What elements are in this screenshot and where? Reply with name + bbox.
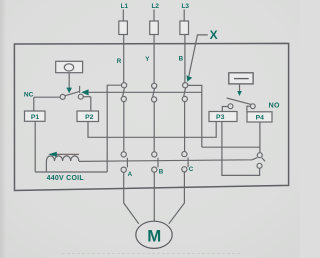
NO start contact bbox=[227, 98, 256, 109]
hold contact bbox=[257, 153, 265, 169]
wire P3 stub bbox=[222, 107, 228, 112]
svg-text:P3: P3 bbox=[216, 114, 225, 121]
wire X contact to hold node bbox=[188, 85, 202, 147]
wire motor lead A bbox=[124, 172, 139, 224]
wire R mid bbox=[123, 102, 125, 152]
wire L2 lead bbox=[153, 10, 155, 22]
stop button stem bbox=[68, 73, 70, 88]
coil wire to hold contact bbox=[79, 158, 257, 162]
wire R phase tap bbox=[107, 85, 121, 172]
wire coil return bbox=[35, 171, 107, 173]
svg-text:NO: NO bbox=[269, 102, 280, 109]
wire P4 to hold contact bbox=[202, 147, 260, 153]
svg-text:P2: P2 bbox=[85, 114, 94, 121]
wire phase Y drop bbox=[153, 35, 155, 84]
svg-text:M: M bbox=[147, 227, 161, 246]
wire P3 to hold contact bbox=[222, 122, 260, 176]
contact main Y upper bbox=[152, 83, 157, 102]
wire P4 stub bbox=[247, 106, 251, 112]
terminal P2 bbox=[77, 111, 99, 122]
terminal P4 bbox=[247, 112, 272, 122]
svg-text:R: R bbox=[117, 58, 122, 65]
svg-text:C: C bbox=[189, 166, 194, 173]
arrow NC pointer bbox=[81, 89, 88, 95]
svg-text:B: B bbox=[159, 169, 164, 176]
start button bbox=[229, 73, 253, 84]
wire P1 stub bbox=[33, 97, 35, 111]
fuse F1 bbox=[119, 21, 128, 35]
stop button bbox=[56, 61, 83, 72]
svg-text:A: A bbox=[128, 171, 133, 178]
linkage wire from NC to X contact bbox=[89, 91, 202, 93]
arrow start push bbox=[237, 91, 242, 96]
svg-text:L3: L3 bbox=[181, 3, 189, 10]
wire L1 lead bbox=[122, 10, 124, 22]
coil 440V bbox=[46, 156, 78, 172]
wire motor lead B bbox=[153, 172, 155, 221]
fuse F3 bbox=[180, 21, 189, 35]
coil arrow tail bbox=[57, 153, 80, 155]
terminal P1 bbox=[25, 111, 46, 121]
contact A lower bbox=[121, 152, 127, 173]
svg-text:B: B bbox=[179, 56, 184, 63]
contact main R upper bbox=[121, 83, 126, 102]
wire P2 to P3 bbox=[88, 122, 216, 138]
NC stop contact bbox=[34, 86, 91, 100]
svg-text:X: X bbox=[210, 28, 218, 42]
enclosure bbox=[14, 43, 288, 190]
fuse F2 bbox=[150, 21, 159, 35]
X pointer line bbox=[189, 35, 208, 76]
wire motor lead C bbox=[169, 172, 185, 224]
arrow coil bbox=[48, 152, 57, 157]
motor M bbox=[136, 221, 172, 248]
contact C lower bbox=[182, 152, 188, 172]
wire B mid bbox=[184, 102, 186, 152]
svg-text:L1: L1 bbox=[121, 3, 129, 10]
wire phase B drop bbox=[184, 35, 186, 83]
contact B lower bbox=[152, 152, 158, 172]
svg-text:440V COIL: 440V COIL bbox=[47, 175, 85, 182]
wire phase R drop bbox=[123, 35, 125, 83]
wire P1 to coil bbox=[34, 121, 36, 172]
svg-text:P4: P4 bbox=[256, 115, 265, 122]
wire P2 stub bbox=[90, 97, 92, 111]
start button stem bbox=[239, 84, 241, 92]
wire Y mid bbox=[153, 102, 155, 152]
wire L3 lead bbox=[183, 10, 185, 22]
contact main B upper bbox=[182, 83, 188, 102]
svg-text:NC: NC bbox=[24, 92, 34, 99]
arrow X pointer bbox=[187, 75, 193, 82]
svg-text:P1: P1 bbox=[31, 114, 40, 121]
svg-text:L2: L2 bbox=[151, 3, 159, 10]
terminal P3 bbox=[209, 112, 237, 122]
arrow stop push bbox=[66, 88, 72, 94]
